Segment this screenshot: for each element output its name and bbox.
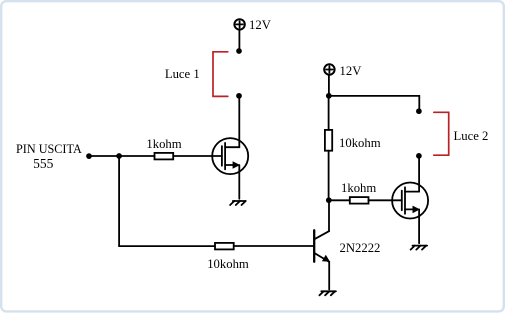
power +12V supply 1 <box>234 19 244 29</box>
wire junction down <box>118 156 120 246</box>
resistor R4 1kohm <box>350 197 369 204</box>
wire terminal to junction <box>89 155 119 157</box>
wire M2 source to ground <box>418 209 420 243</box>
lamp bracket Luce 1 <box>213 52 228 97</box>
lamp bracket Luce 2 <box>434 112 449 155</box>
wire M1 source to ground <box>238 165 240 199</box>
wire R3 to Q1 base <box>234 245 314 247</box>
junction dot node A <box>116 153 122 159</box>
junction dot node B <box>326 93 332 99</box>
node dot top of Luce 2 <box>416 108 422 114</box>
ground (Q1 emitter) <box>319 291 336 295</box>
resistor R2 10kohm vertical <box>325 130 332 151</box>
node dot top of Luce 1 <box>236 48 242 54</box>
svg-text:10kohm: 10kohm <box>207 257 249 271</box>
wire junction to R1 <box>119 155 154 157</box>
svg-text:555: 555 <box>33 156 54 171</box>
wire R4 to M2 gate <box>369 199 402 201</box>
wire Q1 collector up <box>328 200 330 231</box>
wire R2 to node C <box>328 151 330 200</box>
node dot bottom of Luce 2 <box>416 153 422 159</box>
ground (M2 source) <box>411 246 428 250</box>
svg-text:1kohm: 1kohm <box>341 181 376 195</box>
resistor R3 10kohm <box>215 243 234 250</box>
ground (M1 source) <box>230 201 246 205</box>
transistor Q1 2N2222 <box>314 230 330 262</box>
svg-text:1kohm: 1kohm <box>146 137 181 151</box>
svg-text:PIN USCITA: PIN USCITA <box>16 142 82 156</box>
svg-text:10kohm: 10kohm <box>339 136 381 150</box>
wire Q1 emitter down <box>328 262 330 290</box>
wire node C to R4 <box>329 199 350 201</box>
wire Luce2 to M2 drain <box>418 156 420 192</box>
power +12V supply 2 <box>324 64 334 74</box>
wire node B to Luce 2 branch <box>329 96 420 110</box>
svg-text:Luce 1: Luce 1 <box>165 67 200 81</box>
wire node B down to R2 <box>328 96 330 130</box>
wire supply2 down <box>328 75 330 96</box>
mosfet M2 <box>392 183 428 219</box>
svg-text:Luce 2: Luce 2 <box>454 129 489 143</box>
junction dot node C <box>326 197 332 203</box>
svg-text:2N2222: 2N2222 <box>340 241 381 255</box>
mosfet M1 <box>212 138 248 174</box>
svg-text:12V: 12V <box>249 18 272 32</box>
node PIN USCITA terminal dot <box>86 153 92 159</box>
svg-text:12V: 12V <box>340 64 363 78</box>
wire Luce1 to MOSFET M1 drain <box>238 96 240 147</box>
wire supply1 to node <box>238 30 240 51</box>
resistor R1 1kohm <box>155 153 174 160</box>
node dot bottom of Luce 1 <box>236 93 242 99</box>
wire R1 to M1 gate <box>173 155 222 157</box>
wire bottom run to R3 <box>119 245 215 247</box>
